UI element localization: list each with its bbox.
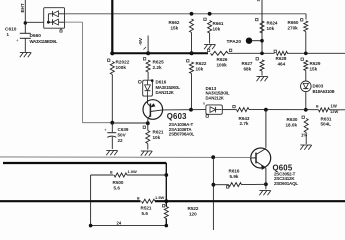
svg-text:R660: R660 bbox=[288, 20, 299, 25]
svg-text:1.0W: 1.0W bbox=[128, 169, 138, 174]
svg-text:EHT: EHT bbox=[20, 3, 25, 12]
svg-text:R628: R628 bbox=[276, 56, 287, 61]
svg-text:R625: R625 bbox=[153, 60, 165, 65]
svg-text:5.6: 5.6 bbox=[142, 211, 149, 216]
svg-text:10k: 10k bbox=[196, 67, 204, 72]
svg-text:22: 22 bbox=[118, 138, 124, 143]
svg-text:-9V: -9V bbox=[138, 37, 144, 45]
svg-text:5.9k: 5.9k bbox=[230, 174, 239, 179]
svg-text:R616: R616 bbox=[229, 169, 240, 174]
svg-text:100k: 100k bbox=[116, 65, 127, 70]
svg-text:100k: 100k bbox=[217, 63, 228, 68]
svg-text:2.7k: 2.7k bbox=[240, 121, 249, 126]
svg-text:WA3X115ED9L: WA3X115ED9L bbox=[30, 39, 58, 44]
svg-text:504L: 504L bbox=[321, 122, 332, 127]
svg-text:15k: 15k bbox=[310, 67, 318, 72]
svg-text:+: + bbox=[104, 128, 107, 133]
svg-text:D616: D616 bbox=[156, 80, 167, 85]
svg-text:R500: R500 bbox=[113, 180, 124, 185]
svg-text:DAN212K: DAN212K bbox=[206, 95, 225, 100]
svg-text:x: x bbox=[203, 102, 205, 106]
svg-text:R2022: R2022 bbox=[116, 60, 130, 65]
svg-text:10k: 10k bbox=[153, 135, 161, 140]
svg-text:B: B bbox=[316, 105, 319, 109]
svg-text:2.2k: 2.2k bbox=[153, 65, 163, 70]
svg-text:R630: R630 bbox=[287, 117, 298, 122]
svg-text:B18A6310B: B18A6310B bbox=[313, 89, 335, 94]
svg-text:R661: R661 bbox=[213, 21, 224, 26]
svg-text:B: B bbox=[110, 171, 113, 175]
svg-text:R627: R627 bbox=[242, 61, 253, 66]
svg-text:1W: 1W bbox=[331, 104, 337, 109]
svg-text:Q603: Q603 bbox=[167, 112, 187, 121]
svg-text:120: 120 bbox=[189, 212, 197, 217]
svg-text:1.5W: 1.5W bbox=[155, 195, 165, 200]
svg-text:1%: 1% bbox=[301, 133, 307, 138]
svg-text:TPA20: TPA20 bbox=[227, 39, 242, 45]
svg-text:R662: R662 bbox=[169, 20, 180, 25]
svg-text:R522: R522 bbox=[188, 206, 199, 211]
svg-text:R621: R621 bbox=[153, 130, 164, 135]
svg-text:10k: 10k bbox=[213, 27, 221, 32]
svg-text:50V: 50V bbox=[118, 133, 127, 138]
svg-text:464: 464 bbox=[278, 62, 286, 67]
svg-text:68k: 68k bbox=[244, 67, 252, 72]
svg-text:R624: R624 bbox=[267, 21, 278, 26]
svg-text:C639: C639 bbox=[118, 127, 129, 132]
svg-text:18.0k: 18.0k bbox=[286, 123, 298, 128]
svg-text:5.6: 5.6 bbox=[114, 186, 121, 191]
svg-text:270k: 270k bbox=[288, 26, 299, 31]
svg-text:R521: R521 bbox=[141, 206, 152, 211]
svg-text:R629: R629 bbox=[310, 61, 321, 66]
svg-text:2SB0706A0L: 2SB0706A0L bbox=[169, 132, 195, 137]
svg-text:+: + bbox=[16, 38, 19, 43]
svg-text:D603: D603 bbox=[313, 84, 324, 89]
svg-text:R622: R622 bbox=[196, 61, 207, 66]
svg-text:24: 24 bbox=[117, 221, 122, 226]
svg-text:15k: 15k bbox=[171, 26, 179, 31]
svg-text:R626: R626 bbox=[217, 57, 228, 62]
svg-text:10k: 10k bbox=[267, 26, 275, 31]
svg-text:DAN212K: DAN212K bbox=[156, 90, 175, 95]
svg-text:2SD601AQL: 2SD601AQL bbox=[274, 181, 298, 186]
svg-text:SCL: SCL bbox=[256, 0, 261, 2]
svg-text:MA3X152K0L: MA3X152K0L bbox=[156, 85, 181, 90]
svg-text:B: B bbox=[137, 197, 140, 201]
